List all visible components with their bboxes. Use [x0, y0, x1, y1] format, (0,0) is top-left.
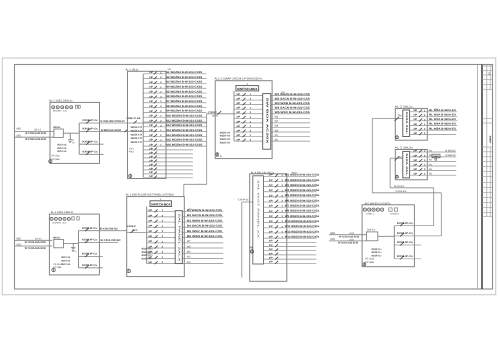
- svg-text:1P: 1P: [149, 100, 154, 103]
- svg-text:W2 WDZN B-W-223-CX5x: W2 WDZN B-W-223-CX5x: [285, 179, 320, 182]
- svg-text:WDZN-YJY x: WDZN-YJY x: [142, 257, 154, 260]
- svg-text:kWh x: kWh x: [366, 212, 375, 215]
- svg-text:1P: 1P: [149, 90, 154, 93]
- svg-text:1P: 1P: [149, 155, 154, 158]
- svg-text:KX08-IP-Cx: KX08-IP-Cx: [83, 151, 99, 154]
- svg-text:1P: 1P: [149, 139, 154, 142]
- svg-text:1P: 1P: [269, 194, 274, 197]
- svg-text:W6: W6: [275, 116, 279, 119]
- svg-text:1P: 1P: [269, 248, 274, 251]
- svg-text:1P: 1P: [236, 134, 241, 137]
- svg-text:1P: 1P: [413, 163, 418, 166]
- svg-text:DT862x: DT862x: [390, 212, 400, 215]
- svg-text:W3 WSN B-W-223-CX5: W3 WSN B-W-223-CX5: [275, 102, 311, 105]
- svg-text:1P: 1P: [149, 163, 154, 166]
- svg-text:SHEET: SHEET: [488, 136, 491, 145]
- svg-text:1P: 1P: [413, 132, 418, 135]
- svg-text:KX08-IP-Cx: KX08-IP-Cx: [397, 222, 414, 225]
- svg-text:W8: W8: [187, 245, 191, 248]
- svg-text:1P: 1P: [269, 215, 274, 218]
- svg-text:1P: 1P: [269, 225, 274, 228]
- svg-text:W3 WDZN B-W-223-CX5x: W3 WDZN B-W-223-CX5x: [285, 184, 320, 187]
- svg-text:1P: 1P: [413, 154, 418, 157]
- svg-text:1P: 1P: [269, 205, 274, 208]
- svg-text:DBX: DBX: [433, 155, 440, 158]
- svg-text:B-W-EX: B-W-EX: [394, 185, 404, 188]
- svg-text:B-YJV22-4X25-CT/SC50-CX: B-YJV22-4X25-CT/SC50-CX: [101, 120, 125, 123]
- svg-text:MR1: MR1: [17, 237, 22, 240]
- svg-text:1P: 1P: [149, 129, 154, 132]
- svg-text:N12 WDZN4 B-W-223-CX2S: N12 WDZN4 B-W-223-CX2S: [166, 124, 203, 127]
- svg-text:W10 WDZN B-W-223-CX5x: W10 WDZN B-W-223-CX5x: [285, 220, 320, 223]
- svg-text:W9: W9: [275, 129, 279, 132]
- svg-text:1P: 1P: [236, 97, 241, 100]
- svg-text:1P: 1P: [236, 93, 241, 96]
- svg-text:1P: 1P: [149, 76, 154, 79]
- svg-text:KX08-IP-Cx: KX08-IP-Cx: [83, 140, 99, 143]
- svg-text:100A: 100A: [132, 229, 138, 232]
- svg-text:ALZ-1 SWAP-2001/4-1P-380V/220V: ALZ-1 SWAP-2001/4-1P-380V/220Vx: [214, 77, 263, 80]
- svg-text:1P: 1P: [236, 129, 241, 132]
- svg-text:WDZN-YJ x16: WDZN-YJ x16: [61, 263, 70, 266]
- svg-text:B-YJ6-CW-SC: B-YJ6-CW-SC: [100, 227, 118, 230]
- svg-text:W-YJV22-4x25-SC50: W-YJV22-4x25-SC50: [25, 138, 47, 141]
- svg-text:RL W1A B-W2A-EX: RL W1A B-W2A-EX: [429, 109, 456, 112]
- svg-text:1P: 1P: [413, 114, 418, 117]
- svg-text:1P: 1P: [269, 199, 274, 202]
- svg-text:PC GBx: PC GBx: [52, 158, 61, 161]
- svg-text:1P: 1P: [413, 128, 418, 131]
- svg-text:AL-1 1ADL 1ADL1x: AL-1 1ADL 1ADL1x: [51, 211, 74, 214]
- svg-text:N15 WDZN4 B-W-223-CX2S: N15 WDZN4 B-W-223-CX2S: [166, 139, 203, 142]
- svg-text:JX-11: JX-11: [34, 128, 42, 131]
- svg-text:W1 WDZN B-W-223-CX5: W1 WDZN B-W-223-CX5: [275, 93, 311, 96]
- svg-text:1P: 1P: [413, 118, 418, 121]
- svg-text:W-YJV22-4x25-SC50: W-YJV22-4x25-SC50: [339, 235, 360, 238]
- svg-text:1P: 1P: [236, 125, 241, 128]
- svg-text:1P: 1P: [269, 257, 274, 260]
- svg-text:W12 WDZN B-W-223-CX5x: W12 WDZN B-W-223-CX5x: [285, 230, 320, 233]
- svg-text:1P: 1P: [149, 144, 154, 147]
- svg-text:YJV22-P: YJV22-P: [208, 111, 217, 114]
- svg-text:1P: 1P: [148, 225, 153, 228]
- svg-text:1P: 1P: [236, 116, 241, 119]
- svg-text:W1 WDZN B-W-223-CX5x: W1 WDZN B-W-223-CX5x: [285, 174, 320, 177]
- svg-text:B3 WSN B-W-223-CX5: B3 WSN B-W-223-CX5: [187, 219, 223, 222]
- svg-text:1P: 1P: [148, 219, 153, 222]
- svg-text:WDZN-YJY: WDZN-YJY: [131, 130, 143, 133]
- svg-text:1P: 1P: [413, 173, 418, 176]
- svg-text:1P: 1P: [149, 110, 154, 113]
- svg-text:KX08-IP-Cx: KX08-IP-Cx: [82, 239, 98, 242]
- svg-text:W9: W9: [187, 251, 191, 254]
- svg-text:1P: 1P: [149, 71, 154, 74]
- svg-text:KX08-IP-Cx: KX08-IP-Cx: [397, 232, 414, 235]
- svg-text:W7 WDZN B-W-223-CX5x: W7 WDZN B-W-223-CX5x: [285, 205, 320, 208]
- svg-text:RL W4A B-W2A-EX: RL W4A B-W2A-EX: [429, 123, 456, 126]
- svg-text:B06-P-16: B06-P-16: [127, 117, 142, 120]
- svg-text:PEx: PEx: [72, 250, 77, 253]
- svg-text:N11 WDZN4 B-W-223-CX2S: N11 WDZN4 B-W-223-CX2S: [166, 119, 203, 122]
- svg-text:KX08-IP-Cx: KX08-IP-Cx: [82, 253, 98, 256]
- svg-text:N10 WDZN4 B-W-223-CX2S: N10 WDZN4 B-W-223-CX2S: [166, 114, 203, 117]
- svg-text:1P: 1P: [148, 235, 153, 238]
- svg-text:MR1: MR1: [330, 232, 336, 235]
- svg-text:B-YJ10-CW-SC: B-YJ10-CW-SC: [101, 239, 121, 242]
- svg-text:KX08-IP-Cx: KX08-IP-Cx: [82, 264, 98, 267]
- svg-text:2AL PANEL 2ALX: 2AL PANEL 2ALX: [178, 214, 181, 263]
- svg-text:1P: 1P: [269, 184, 274, 187]
- svg-text:WDZN-YJY: WDZN-YJY: [131, 137, 143, 140]
- svg-text:W10: W10: [275, 134, 279, 137]
- svg-text:1P: 1P: [236, 111, 241, 114]
- svg-text:PC GBx: PC GBx: [365, 261, 375, 264]
- svg-text:SW BOX AC20X: SW BOX AC20X: [265, 98, 268, 145]
- svg-text:N6 WDZN4 B-W-223-CX2S: N6 WDZN4 B-W-223-CX2S: [166, 95, 203, 98]
- svg-text:N1 WDZN4 B-W-223-CX2S: N1 WDZN4 B-W-223-CX2S: [166, 71, 203, 74]
- svg-text:KX08-IP-Cx: KX08-IP-Cx: [83, 119, 99, 122]
- svg-text:MR-Ex: MR-Ex: [53, 126, 61, 129]
- svg-text:1P: 1P: [149, 151, 154, 154]
- svg-text:4AL DIST PANEL XX: 4AL DIST PANEL XX: [257, 180, 260, 239]
- svg-text:B4 SACN B-W-223-CX5: B4 SACN B-W-223-CX5: [187, 225, 223, 228]
- svg-text:DR-Ex: DR-Ex: [367, 229, 376, 232]
- svg-text:1P: 1P: [148, 209, 153, 212]
- svg-text:W8: W8: [275, 125, 279, 128]
- svg-text:KX08-IP-Cx: KX08-IP-Cx: [397, 241, 414, 244]
- svg-text:KX08-IP-Cx: KX08-IP-Cx: [82, 227, 98, 230]
- svg-text:1P: 1P: [269, 230, 274, 233]
- svg-text:1P: 1P: [149, 147, 154, 150]
- svg-text:1P: 1P: [413, 123, 418, 126]
- svg-text:1P: 1P: [269, 244, 274, 247]
- svg-text:1P: 1P: [149, 86, 154, 89]
- svg-text:W7: W7: [187, 240, 191, 243]
- svg-text:DR1: DR1: [17, 135, 22, 138]
- svg-text:1P: 1P: [269, 261, 274, 264]
- svg-text:1P: 1P: [236, 102, 241, 105]
- svg-text:W11: W11: [187, 261, 191, 264]
- svg-text:W9 WDZN B-W-223-CX5x: W9 WDZN B-W-223-CX5x: [285, 215, 320, 218]
- svg-text:1P: 1P: [148, 214, 153, 217]
- svg-text:1P: 1P: [269, 174, 274, 177]
- svg-text:W4 WDZN B-W-223-CX5x: W4 WDZN B-W-223-CX5x: [285, 189, 320, 192]
- svg-text:PE: PE: [250, 247, 253, 250]
- svg-text:N2 WDZN4 B-W-223-CX2S: N2 WDZN4 B-W-223-CX2S: [166, 76, 203, 79]
- svg-text:N16 WDZN4 B-W-223-CX2S: N16 WDZN4 B-W-223-CX2S: [166, 143, 203, 146]
- svg-text:1P: 1P: [236, 139, 241, 142]
- svg-text:1P: 1P: [269, 210, 274, 213]
- svg-text:1P: 1P: [413, 149, 418, 152]
- svg-text:W-YJV22-4x25-SC50: W-YJV22-4x25-SC50: [25, 247, 47, 250]
- svg-text:1P: 1P: [149, 115, 154, 118]
- svg-text:B5 WSC B-W-223-CX5: B5 WSC B-W-223-CX5: [187, 230, 223, 233]
- svg-text:DR1: DR1: [17, 243, 22, 246]
- svg-text:P-DR-EX: P-DR-EX: [396, 190, 407, 193]
- svg-text:N7 WDZN4 B-W-223-CX2S: N7 WDZN4 B-W-223-CX2S: [166, 100, 203, 103]
- svg-text:RL W2A B-W2A-EX: RL W2A B-W2A-EX: [429, 114, 456, 117]
- svg-text:SWITCH-BOX: SWITCH-BOX: [151, 203, 171, 207]
- svg-text:W4 SACN B-W-223-CX5: W4 SACN B-W-223-CX5: [275, 106, 311, 109]
- svg-text:N13 WDZN4 B-W-223-CX2S: N13 WDZN4 B-W-223-CX2S: [166, 129, 203, 132]
- svg-text:1P: 1P: [149, 134, 154, 137]
- svg-text:1P: 1P: [269, 179, 274, 182]
- svg-text:WDZN-YJY: WDZN-YJY: [220, 141, 231, 144]
- svg-text:510A 3AL: 510A 3AL: [405, 112, 408, 135]
- svg-text:1P: 1P: [149, 171, 154, 174]
- svg-text:1P: 1P: [149, 167, 154, 170]
- svg-text:1P: 1P: [413, 109, 418, 112]
- svg-text:KX08-IP-Cx: KX08-IP-Cx: [397, 255, 414, 258]
- svg-text:B6 WSN B-W-223-CX5: B6 WSN B-W-223-CX5: [187, 235, 223, 238]
- svg-text:W10: W10: [187, 256, 191, 259]
- svg-text:SWITCH-BOX: SWITCH-BOX: [237, 87, 258, 91]
- svg-text:WDZN-YJY: WDZN-YJY: [131, 126, 143, 129]
- svg-text:1P: 1P: [269, 240, 274, 243]
- svg-text:W13 WDZN B-W-223-CX5x: W13 WDZN B-W-223-CX5x: [285, 235, 320, 238]
- svg-text:1P: 1P: [413, 168, 418, 171]
- svg-text:1P: 1P: [269, 189, 274, 192]
- svg-text:W6 WDZN B-W-223-CX5x: W6 WDZN B-W-223-CX5x: [285, 199, 320, 202]
- svg-text:MR1: MR1: [17, 128, 22, 131]
- svg-text:RL W5A B-W2A-EX: RL W5A B-W2A-EX: [429, 127, 456, 130]
- svg-text:1P: 1P: [269, 236, 274, 239]
- svg-text:RL W3A B-W2A-EX: RL W3A B-W2A-EX: [429, 118, 456, 121]
- svg-text:TM: TM: [398, 114, 402, 117]
- svg-text:1P: 1P: [149, 95, 154, 98]
- svg-text:1P: 1P: [148, 240, 153, 243]
- svg-text:B-W4A-EX: B-W4A-EX: [446, 154, 456, 157]
- svg-text:W11 WDZN B-W-223-CX5x: W11 WDZN B-W-223-CX5x: [285, 225, 320, 228]
- svg-text:W-YJV22-4x25-SC50: W-YJV22-4x25-SC50: [338, 242, 359, 245]
- svg-text:KX08-IP-Cx: KX08-IP-Cx: [83, 128, 99, 131]
- svg-text:1P: 1P: [269, 220, 274, 223]
- svg-text:1P: 1P: [236, 120, 241, 123]
- svg-text:N3 WDZN4 B-W-223-CX2S: N3 WDZN4 B-W-223-CX2S: [166, 81, 203, 84]
- svg-text:1P: 1P: [236, 107, 241, 110]
- svg-text:1P: 1P: [149, 81, 154, 84]
- svg-text:WDZN-YJY: WDZN-YJY: [131, 141, 143, 144]
- svg-text:kWh xx: kWh xx: [53, 109, 69, 112]
- svg-text:1P: 1P: [149, 119, 154, 122]
- svg-text:W5 WSC B-W-223-CX5: W5 WSC B-W-223-CX5: [275, 111, 311, 114]
- svg-text:1P: 1P: [149, 175, 154, 178]
- svg-text:WDZN-YJ x16: WDZN-YJ x16: [57, 150, 66, 153]
- svg-text:N8 WDZN4 B-W-223-CX2S: N8 WDZN4 B-W-223-CX2S: [166, 105, 203, 108]
- svg-text:B-W4-EX: B-W4-EX: [446, 149, 456, 152]
- svg-text:kWh xx: kWh xx: [53, 222, 69, 225]
- svg-text:W-YJV22-4x25-SC50: W-YJV22-4x25-SC50: [25, 132, 47, 135]
- svg-text:MR-Ex: MR-Ex: [53, 236, 61, 239]
- svg-text:W11: W11: [275, 138, 279, 141]
- svg-text:1P: 1P: [149, 124, 154, 127]
- svg-text:WDZN-YJY: WDZN-YJY: [131, 133, 143, 136]
- svg-text:W8 WDZN B-W-223-CX5x: W8 WDZN B-W-223-CX5x: [285, 210, 320, 213]
- svg-text:N4 WDZN4 B-W-223-CX2S: N4 WDZN4 B-W-223-CX2S: [166, 86, 203, 89]
- svg-text:1P: 1P: [148, 230, 153, 233]
- svg-text:1P: 1P: [148, 261, 153, 264]
- svg-text:N9 WDZN4 B-W-223-CX2S: N9 WDZN4 B-W-223-CX2S: [166, 110, 203, 113]
- svg-text:W-YJV22-4x25-SC50: W-YJV22-4x25-SC50: [25, 241, 47, 244]
- svg-text:B1 WDZN B-W-223-CX5: B1 WDZN B-W-223-CX5: [187, 209, 223, 212]
- svg-text:W2 SACN B-W-223-CX5: W2 SACN B-W-223-CX5: [275, 97, 311, 100]
- svg-text:N5 WDZN4 B-W-223-CX2S: N5 WDZN4 B-W-223-CX2S: [166, 90, 203, 93]
- svg-text:1P: 1P: [269, 252, 274, 255]
- svg-text:YJV-P 4x: YJV-P 4x: [238, 199, 250, 202]
- svg-text:W5 WDZN B-W-223-CX5x: W5 WDZN B-W-223-CX5x: [285, 194, 320, 197]
- svg-text:1P: 1P: [413, 159, 418, 162]
- svg-text:1P: 1P: [149, 159, 154, 162]
- svg-text:N14 WDZN4 B-W-223-CX2S: N14 WDZN4 B-W-223-CX2S: [166, 134, 203, 137]
- svg-text:B2 SACN B-W-223-CX5: B2 SACN B-W-223-CX5: [187, 214, 223, 217]
- svg-text:W7: W7: [275, 120, 279, 123]
- svg-text:1P: 1P: [149, 105, 154, 108]
- svg-text:KX08-P: KX08-P: [127, 225, 136, 228]
- svg-text:510A 3AL: 510A 3AL: [405, 153, 408, 176]
- svg-text:DR1: DR1: [330, 238, 336, 241]
